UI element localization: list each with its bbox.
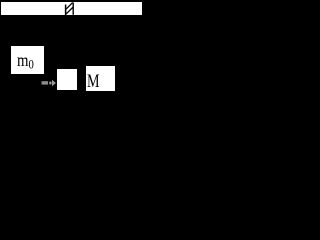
grey dashed arrow dash 2 bbox=[49, 82, 51, 85]
mass m0 box bbox=[10, 45, 45, 75]
hatch diagonal 2 bbox=[65, 3, 72, 10]
ceiling hatch symbol and grey arrow bbox=[0, 0, 143, 104]
hatch diagonal 1 bbox=[65, 7, 73, 15]
grey arrow head bbox=[52, 80, 56, 86]
label m0 bbox=[17, 50, 34, 73]
hatch right vertical bbox=[72, 3, 74, 15]
mass M box bbox=[85, 65, 116, 92]
label M bbox=[87, 71, 100, 93]
grey dashed arrow dash 1 bbox=[42, 81, 49, 84]
small hanging box bbox=[56, 68, 78, 91]
ceiling band bbox=[1, 2, 142, 15]
hatch left vertical bbox=[65, 5, 67, 15]
